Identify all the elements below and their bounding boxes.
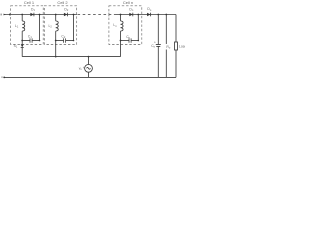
node C1 corner [39,40,41,42]
wire cap Cn right [131,40,138,42]
bottom rail [4,76,177,78]
wire source stub [88,57,90,65]
capacitor Co [156,44,161,46]
wire L2 branch upper [55,15,57,21]
node Ln top [120,14,122,16]
wire C2 riser [73,15,75,41]
wire Ln branch upper [120,15,122,21]
svg-text:D1: D1 [31,7,35,12]
wire Ro lower [165,50,167,78]
mid rail [22,56,120,58]
wire cap Cn left [121,40,130,42]
node Co top [157,14,159,16]
capacitor Cn [128,38,130,42]
wire S1 to mid rail [21,48,23,57]
capacitor C2 [63,38,65,42]
wire L2 branch lower [55,31,57,56]
cell n box [109,6,142,45]
svg-text:+: + [83,66,85,70]
box edge crossing dash [108,13,110,17]
svg-text:Do: Do [147,7,151,12]
svg-text:Dn: Dn [129,7,133,12]
inductor L1 [22,21,25,31]
wire cap C1 right [32,40,40,42]
bottom terminal dot [3,77,5,79]
wire cap C2 right [65,40,73,42]
svg-text:Load: Load [179,45,185,49]
node input a [9,14,11,16]
svg-text:Cn: Cn [126,35,130,40]
node D2 cathode [73,14,75,16]
svg-text:Cell 1: Cell 1 [24,0,35,5]
diode Do output [147,13,150,17]
cell 1 box [11,6,44,45]
node Dn cathode [137,14,139,16]
diode Dn [129,13,132,17]
node celln bottom [120,40,122,42]
svg-text:C1: C1 [28,35,32,40]
source Vs sine [87,67,91,69]
input terminal mark top-left [0,14,2,16]
svg-text:S1: S1 [14,44,18,49]
wire Ln branch lower [120,31,122,56]
svg-text:Cell n: Cell n [123,0,133,5]
svg-text:+: + [154,40,156,44]
inductor L2 [56,21,59,31]
wire cap C1 left [22,40,30,42]
wire C1 riser [39,15,41,41]
node L1 top [21,14,23,16]
cell 2 box [44,6,76,45]
wire Ro upper [165,15,167,45]
svg-text:Cell 2: Cell 2 [57,0,68,5]
diode S1 down [21,44,24,47]
svg-text:C2: C2 [61,35,65,40]
node cell1 bottom [21,40,23,42]
wire Co lower [157,46,159,77]
capacitor C1 [29,38,31,42]
wire cap C2 left [56,40,64,42]
wire source bottom [88,72,90,77]
wire top rail left [4,14,78,16]
wire load lower [175,50,177,77]
diode D1 [30,13,33,17]
svg-text:Co: Co [151,44,155,49]
labels [24,0,133,5]
node D1 cathode [39,14,41,16]
node source top [88,56,90,58]
node Ro top [165,14,167,16]
svg-text:Ro: Ro [166,45,170,50]
inductor Ln [121,21,124,31]
load box [175,42,178,50]
svg-text:D2: D2 [64,7,68,12]
wire L1 branch upper [21,15,23,21]
node L2 top [55,14,57,16]
bottom terminal mark [1,76,2,78]
wire top rail right [117,14,177,16]
wire top rail dashed continuation [78,14,117,16]
node cell2 mid rail [55,56,57,58]
node cell2 bottom [55,40,57,42]
wire Co upper [157,15,159,45]
input current arrow [4,14,7,16]
source Vs circle [85,64,93,72]
wire L1 branch lower [21,31,23,44]
node Cn corner [138,40,140,42]
diode D2 [64,13,67,17]
wire Cn riser [137,15,139,41]
wire output drop right [175,15,177,43]
node C2 corner [73,40,75,42]
